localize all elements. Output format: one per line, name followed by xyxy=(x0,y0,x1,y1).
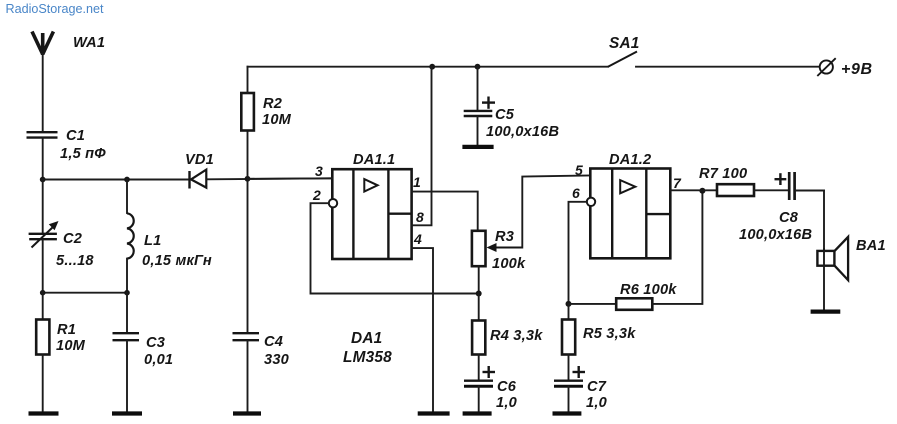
wire pin7 to R7 xyxy=(670,189,717,191)
svg-text:C4: C4 xyxy=(264,334,283,350)
wire diode to R2 node xyxy=(208,178,333,179)
svg-text:DA1: DA1 xyxy=(351,330,382,347)
wire pin6 down xyxy=(569,202,587,304)
svg-text:L1: L1 xyxy=(144,233,161,249)
label C8 value xyxy=(739,210,812,243)
svg-text:C6: C6 xyxy=(497,379,517,395)
wire R3 bottom xyxy=(478,266,480,293)
label R1 value xyxy=(56,322,86,354)
capacitor C7 xyxy=(554,381,583,412)
svg-text:RadioStorage.net: RadioStorage.net xyxy=(6,2,105,16)
junction rail V+ branch xyxy=(429,64,435,70)
svg-text:R4 3,3k: R4 3,3k xyxy=(490,328,543,344)
capacitor C2 (variable) xyxy=(29,180,59,293)
svg-text:C3: C3 xyxy=(146,335,165,351)
node R2 bottom junction xyxy=(245,176,251,182)
label C1 value xyxy=(60,128,106,162)
svg-text:5...18: 5...18 xyxy=(56,253,94,269)
svg-text:R2: R2 xyxy=(263,96,282,112)
op-amp U2 DA1.2 xyxy=(590,169,670,259)
label C4 value xyxy=(264,334,289,368)
svg-text:3: 3 xyxy=(315,163,323,179)
resistor R5 xyxy=(562,304,575,380)
op-amp U1 DA1.1 xyxy=(332,169,411,259)
svg-text:R5 3,3k: R5 3,3k xyxy=(583,326,636,342)
svg-text:1,0: 1,0 xyxy=(496,395,517,411)
wire lower node xyxy=(43,292,127,294)
svg-text:C5: C5 xyxy=(495,107,515,123)
plus sign C6 xyxy=(483,366,496,378)
ground R1 xyxy=(29,411,59,415)
svg-text:R6 100k: R6 100k xyxy=(620,282,677,298)
inductor L1 xyxy=(127,180,134,293)
svg-text:C7: C7 xyxy=(587,379,607,395)
svg-text:VD1: VD1 xyxy=(185,152,214,168)
wire C1 to node xyxy=(42,139,44,180)
svg-text:4: 4 xyxy=(413,231,422,247)
svg-text:+9В: +9В xyxy=(841,61,873,78)
resistor R4 xyxy=(472,294,485,381)
resistor R1 xyxy=(36,293,49,412)
ground pin4 xyxy=(418,411,450,415)
wire +9V rail xyxy=(248,66,609,68)
ground C4 xyxy=(233,411,261,415)
ground C3 xyxy=(112,411,142,415)
svg-text:R1: R1 xyxy=(57,322,76,338)
svg-text:LM358: LM358 xyxy=(343,349,392,366)
terminal +9V xyxy=(817,58,835,76)
pin 2 circle xyxy=(329,199,337,207)
svg-text:2: 2 xyxy=(312,187,321,203)
svg-text:1,5 пФ: 1,5 пФ xyxy=(60,146,106,162)
junction lower left xyxy=(40,290,46,296)
svg-text:R3: R3 xyxy=(495,229,514,245)
switch SA1 xyxy=(608,52,819,67)
label R3 value xyxy=(492,229,526,272)
capacitor C5 xyxy=(464,67,493,145)
junction pin6/R5/R6 xyxy=(566,301,572,307)
svg-text:7: 7 xyxy=(673,175,682,191)
plus sign C7 xyxy=(573,366,586,378)
wire pin2 feedback xyxy=(311,203,479,293)
label DA1 LM358 xyxy=(343,330,392,366)
svg-text:1,0: 1,0 xyxy=(586,395,607,411)
svg-text:0,01: 0,01 xyxy=(144,352,173,368)
svg-text:6: 6 xyxy=(572,185,580,201)
svg-text:1: 1 xyxy=(413,174,421,190)
svg-text:C8: C8 xyxy=(779,210,799,226)
capacitor C6 xyxy=(464,381,493,412)
svg-text:100,0x16В: 100,0x16В xyxy=(486,124,559,140)
wire pin3 node xyxy=(248,177,333,180)
svg-text:C1: C1 xyxy=(66,128,85,144)
wire pin8 to rail xyxy=(412,67,432,226)
junction R6/pin7 xyxy=(699,188,705,194)
svg-text:5: 5 xyxy=(575,162,583,178)
wire pin1 to R3 xyxy=(412,192,478,231)
capacitor C4 xyxy=(233,179,260,412)
node L1 top junction xyxy=(124,177,130,183)
svg-text:10M: 10M xyxy=(262,112,292,128)
svg-text:0,15 мкГн: 0,15 мкГн xyxy=(142,253,212,269)
label C6 value xyxy=(496,379,517,411)
resistor R2 xyxy=(241,67,254,179)
svg-text:C2: C2 xyxy=(63,231,82,247)
antenna WA1 xyxy=(32,32,53,56)
wire R3 wiper to pin5 xyxy=(522,176,590,248)
svg-text:100,0x16В: 100,0x16В xyxy=(739,227,812,243)
plus sign C8 xyxy=(775,173,787,185)
svg-text:8: 8 xyxy=(416,209,424,225)
capacitor C1 xyxy=(27,132,58,137)
junction R3/R4/pin2 xyxy=(476,291,482,297)
junction lower L1 xyxy=(124,290,130,296)
plus sign C5 xyxy=(482,97,495,109)
label L1 value xyxy=(142,233,212,269)
wire C8 to speaker xyxy=(823,191,825,250)
label C5 value xyxy=(486,107,559,140)
svg-text:100k: 100k xyxy=(492,256,526,272)
svg-text:WA1: WA1 xyxy=(73,35,105,51)
potentiometer R3 xyxy=(472,231,522,266)
capacitor C3 xyxy=(113,293,140,412)
svg-text:DA1.2: DA1.2 xyxy=(609,152,651,168)
svg-text:10M: 10M xyxy=(56,338,86,354)
speaker BA1 xyxy=(817,237,848,280)
capacitor C8 xyxy=(789,172,824,200)
junction rail C5 xyxy=(475,64,481,70)
pin 6 circle xyxy=(587,198,595,206)
wire pin4 to ground xyxy=(412,248,433,412)
svg-text:BA1: BA1 xyxy=(856,238,886,254)
wire antenna to C1 xyxy=(42,54,44,131)
wire speaker to ground xyxy=(823,266,825,310)
ground C7 xyxy=(553,411,582,415)
label C2 value xyxy=(56,231,94,269)
svg-text:R7 100: R7 100 xyxy=(699,166,747,182)
label C3 value xyxy=(144,335,173,368)
label R2 value xyxy=(262,96,292,128)
resistor R6 xyxy=(569,191,703,310)
ground BA1 xyxy=(811,310,841,314)
resistor R7 xyxy=(717,184,788,196)
svg-text:SA1: SA1 xyxy=(609,35,640,52)
node A junction xyxy=(40,177,46,183)
svg-text:DA1.1: DA1.1 xyxy=(353,152,395,168)
wire main top node xyxy=(43,179,189,181)
ground C5 xyxy=(462,145,493,149)
diode VD1 xyxy=(190,170,207,189)
label C7 value xyxy=(586,379,607,411)
svg-text:330: 330 xyxy=(264,352,289,368)
ground C6 xyxy=(463,411,492,415)
